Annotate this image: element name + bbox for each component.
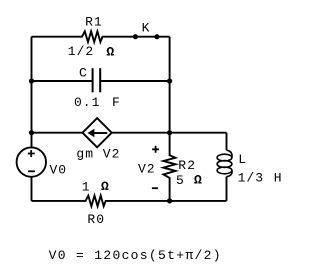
svg-text:1/3: 1/3 [238, 170, 264, 185]
svg-text:0.1: 0.1 [74, 95, 100, 110]
svg-text:K: K [142, 20, 151, 35]
svg-text:gm V2: gm V2 [76, 147, 120, 162]
svg-text:V0: V0 [50, 162, 68, 177]
svg-text:C: C [79, 65, 88, 80]
svg-text:Ω: Ω [101, 179, 110, 194]
svg-text:1: 1 [82, 180, 91, 195]
svg-text:H: H [274, 170, 283, 185]
svg-text:R2: R2 [178, 158, 196, 173]
svg-text:F: F [112, 95, 121, 110]
svg-text:5: 5 [176, 173, 185, 188]
svg-text:1/2: 1/2 [68, 44, 94, 59]
svg-text:Ω: Ω [106, 45, 115, 60]
svg-text:L: L [238, 152, 247, 167]
svg-text:R0: R0 [87, 212, 105, 227]
svg-text:V2: V2 [138, 161, 156, 176]
svg-text:V0 = 120cos(5t+π/2): V0 = 120cos(5t+π/2) [49, 248, 222, 263]
svg-text:R1: R1 [85, 14, 103, 29]
svg-text:Ω: Ω [194, 173, 203, 188]
